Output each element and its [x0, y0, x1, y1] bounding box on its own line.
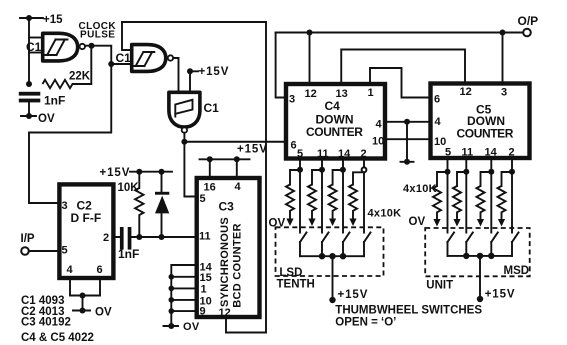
svg-text:OPEN = ‘O’: OPEN = ‘O’	[335, 317, 396, 329]
svg-text:14: 14	[338, 148, 351, 160]
svg-text:6: 6	[97, 264, 103, 276]
svg-text:16: 16	[204, 182, 216, 194]
svg-text:10K: 10K	[118, 182, 140, 194]
svg-text:4: 4	[435, 116, 442, 128]
svg-text:C3: C3	[219, 200, 235, 214]
svg-text:OV: OV	[183, 321, 200, 333]
svg-text:1nF: 1nF	[44, 94, 65, 108]
svg-text:22K: 22K	[69, 71, 91, 83]
svg-text:+15V: +15V	[237, 144, 268, 156]
svg-text:11: 11	[462, 147, 474, 159]
svg-text:C4: C4	[325, 99, 341, 113]
svg-text:LSD: LSD	[279, 267, 302, 279]
svg-text:COUNTER: COUNTER	[457, 127, 514, 141]
svg-text:2: 2	[509, 147, 515, 159]
svg-text:2: 2	[361, 148, 367, 160]
svg-text:9: 9	[200, 306, 206, 318]
svg-text:OV: OV	[409, 216, 426, 228]
svg-text:4: 4	[376, 119, 383, 131]
svg-text:12: 12	[460, 86, 472, 98]
svg-text:1: 1	[201, 284, 207, 296]
svg-text:3: 3	[289, 94, 295, 106]
svg-text:C3 40192: C3 40192	[21, 317, 71, 329]
svg-text:I/P: I/P	[21, 233, 35, 245]
svg-text:+15: +15	[43, 14, 63, 26]
svg-text:1: 1	[368, 87, 374, 99]
svg-text:PULSE: PULSE	[80, 30, 115, 41]
svg-text:12: 12	[219, 307, 231, 319]
svg-text:+15V: +15V	[338, 289, 369, 301]
svg-text:5: 5	[445, 147, 451, 159]
svg-text:5: 5	[62, 245, 68, 257]
svg-text:1nF: 1nF	[118, 247, 139, 261]
svg-text:12: 12	[305, 88, 317, 100]
svg-text:UNIT: UNIT	[426, 280, 453, 292]
svg-text:14: 14	[485, 147, 498, 159]
svg-text:4: 4	[235, 181, 242, 193]
svg-text:5: 5	[200, 193, 206, 205]
svg-text:15: 15	[200, 272, 212, 284]
svg-text:TENTH: TENTH	[277, 279, 315, 291]
svg-text:O/P: O/P	[518, 14, 539, 28]
svg-text:D F-F: D F-F	[71, 211, 102, 225]
svg-text:MSD: MSD	[504, 265, 530, 277]
svg-text:4x10K: 4x10K	[368, 207, 402, 219]
svg-text:BCD COUNTER: BCD COUNTER	[231, 223, 243, 308]
svg-text:3: 3	[501, 87, 507, 99]
svg-text:10: 10	[372, 136, 384, 148]
svg-text:COUNTER: COUNTER	[306, 125, 363, 139]
svg-text:+15V: +15V	[485, 289, 516, 301]
svg-text:5: 5	[297, 148, 303, 160]
svg-text:11: 11	[199, 231, 211, 243]
svg-text:+15V: +15V	[199, 66, 230, 78]
svg-text:OV: OV	[95, 307, 112, 319]
svg-text:6: 6	[434, 94, 440, 106]
svg-text:C1: C1	[116, 51, 132, 65]
svg-text:C4 & C5 4022: C4 & C5 4022	[21, 332, 94, 344]
svg-text:OV: OV	[38, 113, 55, 125]
svg-text:11: 11	[317, 148, 329, 160]
svg-text:3: 3	[62, 200, 68, 212]
svg-text:C1: C1	[26, 40, 42, 54]
svg-text:+15V: +15V	[100, 167, 131, 179]
svg-text:C1: C1	[204, 101, 220, 115]
svg-text:4: 4	[67, 264, 74, 276]
svg-text:4x10K: 4x10K	[403, 183, 437, 195]
svg-text:2: 2	[103, 232, 109, 244]
svg-text:SYNCHRONOUS: SYNCHRONOUS	[219, 217, 231, 307]
svg-text:THUMBWHEEL SWITCHES: THUMBWHEEL SWITCHES	[335, 305, 482, 317]
svg-text:6: 6	[291, 140, 297, 152]
